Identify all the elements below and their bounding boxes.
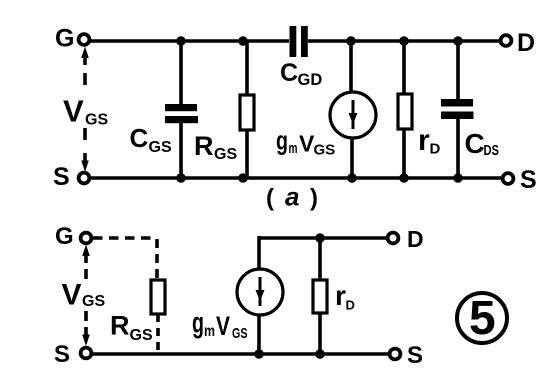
svg-text:g: g bbox=[276, 126, 288, 156]
svg-text:V: V bbox=[62, 279, 82, 312]
node S left (circuit a) bbox=[53, 163, 89, 191]
label VGS (circuit b) bbox=[62, 279, 106, 312]
svg-text:C: C bbox=[280, 59, 298, 87]
wire dashed G to RGS (circuit b) bbox=[93, 238, 157, 280]
svg-text:5: 5 bbox=[469, 292, 496, 345]
svg-text:V: V bbox=[63, 94, 84, 129]
node S left (circuit b) bbox=[54, 341, 91, 368]
junction dots CGS bbox=[176, 36, 186, 183]
node G (circuit b) bbox=[55, 223, 91, 250]
svg-text:V: V bbox=[216, 311, 230, 341]
capacitor CGD bbox=[280, 26, 322, 89]
Vgs dashed arrow (circuit a) bbox=[81, 47, 89, 173]
svg-text:S: S bbox=[407, 342, 423, 369]
wire top rail (circuit b) bbox=[259, 236, 387, 270]
wire bottom rail (circuit a) bbox=[90, 176, 502, 180]
svg-text:R: R bbox=[110, 311, 130, 341]
svg-text:S: S bbox=[54, 341, 70, 368]
svg-text:GS: GS bbox=[130, 327, 153, 344]
label gmVGS (circuit b) bbox=[192, 307, 248, 343]
svg-text:S: S bbox=[520, 166, 537, 194]
label VGS (circuit a) bbox=[63, 94, 108, 129]
svg-text:C: C bbox=[465, 128, 485, 159]
svg-text:GS: GS bbox=[314, 142, 336, 159]
svg-text:S: S bbox=[53, 163, 70, 191]
svg-text:a: a bbox=[285, 182, 299, 212]
wire top rail left (G to CGD) bbox=[90, 39, 289, 43]
capacitor CDS bbox=[441, 41, 499, 178]
label (a) bbox=[266, 182, 318, 212]
junction dots rD (circuit b) bbox=[315, 233, 325, 359]
svg-text:GS: GS bbox=[85, 112, 108, 129]
node G (circuit a) bbox=[55, 25, 89, 53]
svg-text:C: C bbox=[130, 123, 149, 153]
junction dots CDS bbox=[453, 36, 463, 183]
wire bottom rail (circuit b) bbox=[92, 352, 389, 356]
svg-text:G: G bbox=[55, 25, 74, 53]
svg-text:m: m bbox=[289, 140, 298, 157]
resistor RGS (circuit a) bbox=[194, 41, 254, 178]
node D (circuit a) bbox=[501, 29, 535, 57]
svg-text:g: g bbox=[192, 307, 204, 340]
wire top rail right (CGD to D) bbox=[308, 39, 500, 43]
svg-text:R: R bbox=[194, 131, 214, 161]
svg-text:DS: DS bbox=[484, 142, 500, 159]
junction dots rD (circuit a) bbox=[399, 36, 409, 183]
node S right (circuit a) bbox=[503, 166, 537, 194]
svg-text:GS: GS bbox=[232, 325, 248, 342]
svg-text:GD: GD bbox=[298, 71, 323, 89]
svg-text:): ) bbox=[310, 185, 318, 212]
Vgs dashed arrow (circuit b) bbox=[82, 245, 90, 347]
svg-text:D: D bbox=[346, 298, 355, 313]
junction dot current source (circuit b) bbox=[254, 349, 264, 359]
resistor rD (circuit a) bbox=[398, 41, 441, 178]
label gmVGS (circuit a) bbox=[276, 126, 335, 159]
junction dots RGS bbox=[238, 36, 248, 183]
node D (circuit b) bbox=[388, 226, 424, 252]
svg-text:D: D bbox=[407, 226, 424, 252]
capacitor CGS bbox=[130, 41, 199, 178]
svg-text:m: m bbox=[204, 323, 215, 340]
resistor RGS (circuit b) bbox=[110, 280, 165, 352]
svg-text:(: ( bbox=[266, 185, 274, 212]
current source gmVGS (circuit b) bbox=[237, 269, 283, 354]
svg-text:GS: GS bbox=[149, 139, 172, 156]
svg-text:D: D bbox=[430, 141, 441, 158]
svg-text:r: r bbox=[418, 124, 430, 157]
figure number 5 bbox=[457, 292, 507, 345]
svg-text:GS: GS bbox=[214, 146, 237, 163]
svg-text:D: D bbox=[517, 29, 535, 57]
junction dots current source (circuit a) bbox=[346, 36, 357, 183]
current source gmVGS (circuit a) bbox=[330, 41, 376, 178]
svg-text:G: G bbox=[55, 223, 74, 250]
svg-text:r: r bbox=[335, 280, 346, 311]
svg-text:GS: GS bbox=[82, 293, 105, 310]
resistor rD (circuit b) bbox=[313, 238, 355, 354]
node S right (circuit b) bbox=[390, 342, 423, 369]
